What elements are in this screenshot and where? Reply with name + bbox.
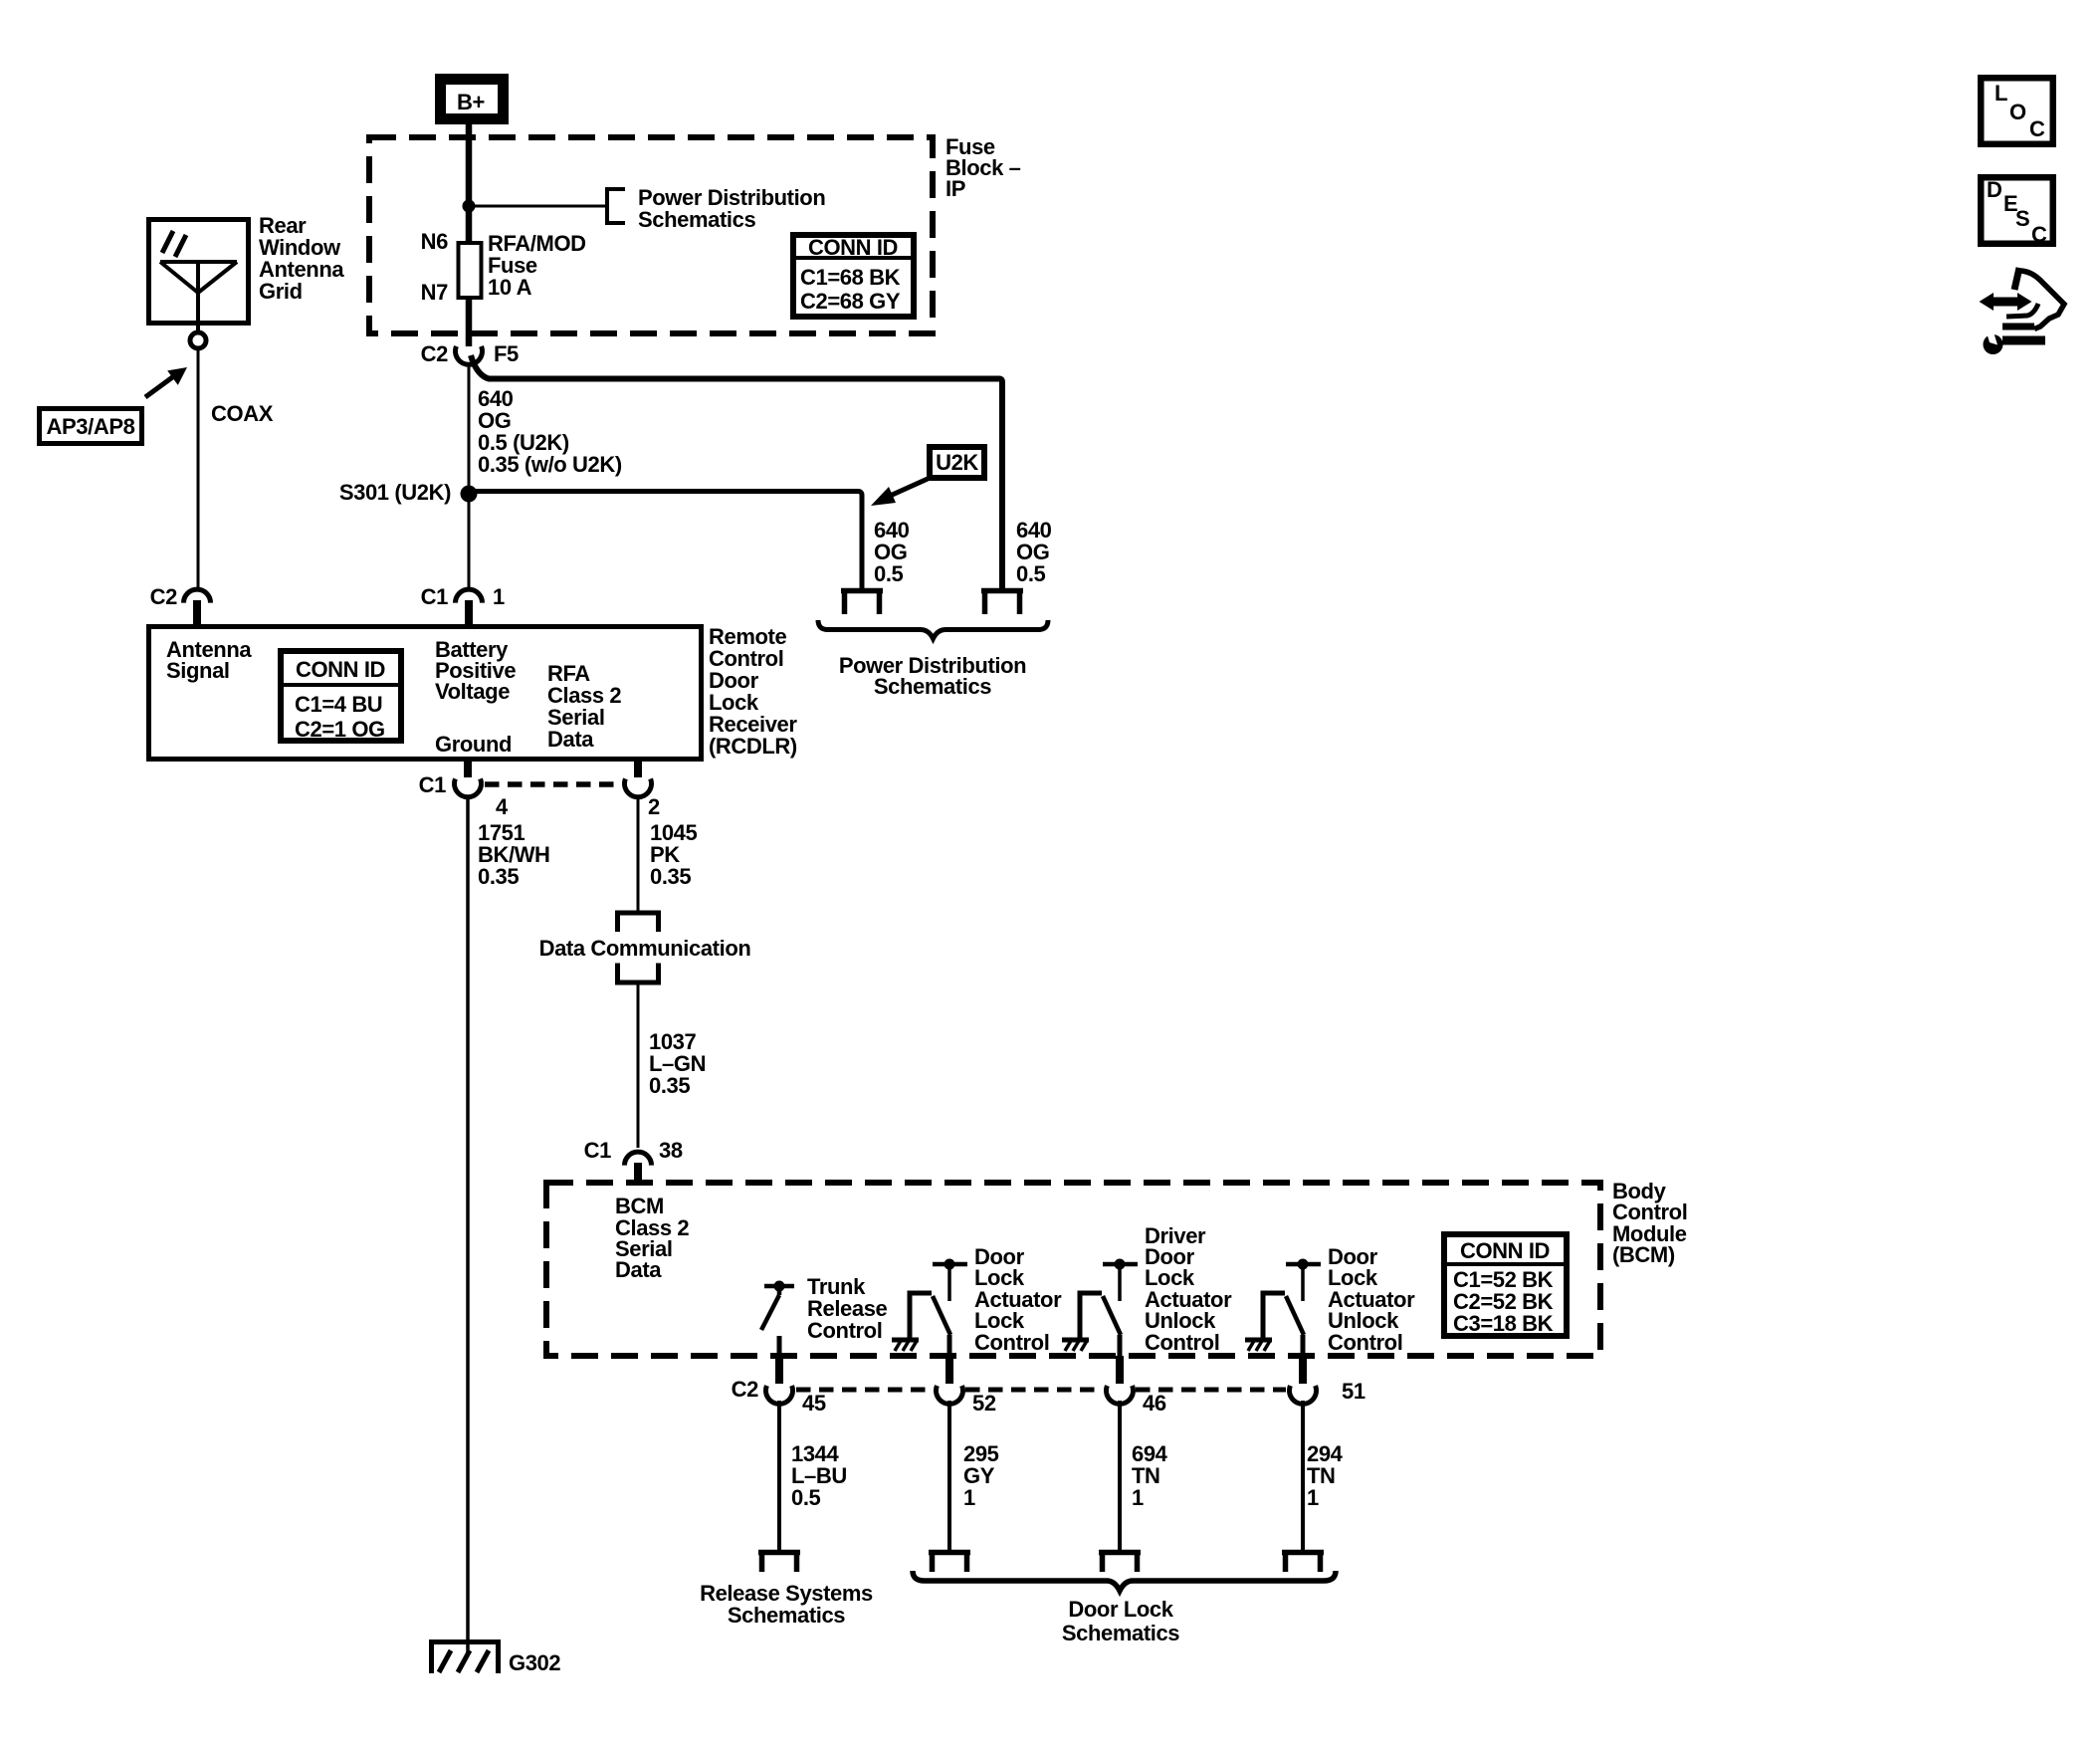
svg-text:46: 46 [1143,1391,1166,1416]
dashed connector line C2 BCM [796,1388,933,1393]
svg-text:COAX: COAX [211,401,274,426]
svg-text:Ground: Ground [435,732,512,757]
svg-text:4: 4 [496,794,509,819]
RCDLR box [149,627,702,760]
wrench [2002,336,2045,345]
U2K arrow [888,479,928,497]
wire fuse to connector C2 F5 [466,298,473,346]
DESC icon box [1981,177,2053,247]
CONN ID table (fuse block) [790,235,917,317]
svg-text:C1: C1 [584,1138,611,1163]
grid marks [162,231,173,253]
connector C2 F5 (fuse block output) [456,346,483,364]
svg-text:C1=68 BKC2=68 GY: C1=68 BKC2=68 GY [800,265,901,314]
svg-text:G302: G302 [509,1650,560,1675]
trunk release control driver [761,1281,794,1357]
svg-text:O: O [2009,100,2026,124]
fuse block IP dashed box [369,137,933,333]
driver door lock actuator unlock control driver [1062,1259,1138,1357]
terminal (door lock 52) [929,1553,970,1573]
junction dot on B+ feed [463,200,476,213]
wire pin46 to door lock terminal [1118,1401,1122,1550]
terminal (right power distribution lead) [981,591,1023,615]
svg-text:1: 1 [493,584,505,609]
svg-text:S301 (U2K): S301 (U2K) [339,480,451,505]
splice S301 (U2K) [461,486,478,503]
rear window antenna grid box [149,220,249,331]
door lock actuator unlock control driver [1245,1259,1321,1357]
antenna output circle [190,332,206,348]
svg-text:C2: C2 [421,341,448,366]
terminal (door lock 51) [1282,1553,1324,1573]
off-page connector data communication (bottom bracket) [618,964,659,983]
svg-text:2: 2 [648,794,660,819]
svg-text:N7: N7 [421,280,448,305]
BCM dashed box [546,1183,1600,1356]
fuse RFA/MOD 10A [459,243,482,298]
CONN ID table (RCDLR) [278,651,404,742]
off-page connector data communication (top bracket) [618,913,659,932]
svg-text:CONN ID: CONN ID [808,235,898,260]
svg-text:N6: N6 [421,229,448,254]
how-to-use icon (arrows and wrench) [1980,268,2065,354]
ground G302 symbol [429,1639,501,1673]
svg-text:38: 38 [659,1138,683,1163]
door lock actuator lock control driver [892,1259,967,1357]
terminal (door lock 46) [1099,1553,1141,1573]
svg-text:C: C [2031,222,2047,247]
svg-text:C1: C1 [421,584,448,609]
svg-text:S: S [2015,206,2029,231]
connector C2 pin 52 [945,1356,953,1384]
connector C2 pin 46 [1116,1356,1124,1384]
wire branch F5 to right power distribution [471,355,1002,590]
svg-text:F5: F5 [494,341,519,366]
terminal (release systems) [758,1553,800,1573]
wire B+ to fuse block [466,124,473,244]
wire RCDLR pin2 to data communication [637,795,640,911]
bent outline arrow [2014,268,2019,290]
wire branch S301 to right terminal [469,492,862,591]
dashed connector line C1 RCDLR [485,781,622,787]
svg-text:D: D [1987,177,2002,202]
wire pin52 to door lock terminal [947,1401,951,1550]
connector C1 pin 2 (RCDLR serial data) [634,762,642,777]
svg-text:C1: C1 [419,772,446,797]
coax wire [197,348,200,587]
svg-text:45: 45 [802,1391,826,1416]
wire data communication to BCM [637,983,640,1148]
brace power distribution schematics [818,620,1048,639]
B+ battery positive voltage symbol [441,80,504,119]
AP3/AP8 arrow [145,375,175,397]
wire junction to power distribution bracket [469,205,606,208]
connector C1 pin 4 (RCDLR ground output) [464,762,472,777]
svg-text:U2K: U2K [936,450,978,475]
U2K callout box [930,447,984,478]
svg-text:C1=52 BKC2=52 BKC3=18 BK: C1=52 BKC2=52 BKC3=18 BK [1453,1267,1554,1336]
svg-text:CONN ID: CONN ID [1460,1238,1550,1263]
double headed arrow [1992,298,2020,307]
svg-text:CONN ID: CONN ID [296,657,385,682]
svg-text:52: 52 [972,1391,996,1416]
svg-text:Data Communication: Data Communication [539,936,751,961]
LOC icon box [1981,78,2053,144]
wire F5 cup to splice S301 [468,362,471,488]
AP3/AP8 callout box [40,409,142,444]
svg-text:C2: C2 [150,584,177,609]
svg-text:L: L [1995,81,2007,106]
wire pin51 to door lock terminal [1301,1401,1305,1550]
connector C1 pin 38 (BCM) [625,1152,652,1166]
svg-text:Door LockSchematics: Door LockSchematics [1062,1597,1179,1645]
svg-text:C2: C2 [732,1377,758,1402]
connector C2 pin 45 (trunk release) [775,1356,783,1384]
brace door lock schematics [913,1571,1336,1591]
CONN ID table (BCM) [1441,1234,1570,1336]
svg-text:C: C [2029,116,2045,141]
svg-text:BatteryPositiveVoltage: BatteryPositiveVoltage [435,637,516,704]
bracket power distribution reference [607,189,625,223]
connector C2 pin 51 [1299,1356,1307,1384]
wire RCDLR ground to G302 [466,795,470,1652]
connector C1 pin 1 (RCDLR) [456,589,483,603]
wire S301 to RCDLR C1 pin 1 [468,502,471,587]
wire pin45 to release systems terminal [777,1401,781,1550]
connector C2 (antenna to RCDLR) [184,589,211,603]
svg-text:51: 51 [1342,1379,1365,1404]
svg-text:B+: B+ [457,90,485,114]
svg-text:C1=4 BUC2=1 OG: C1=4 BUC2=1 OG [295,692,385,742]
terminal (left power distribution lead) [841,591,883,615]
antenna symbol [160,260,237,264]
svg-text:AP3/AP8: AP3/AP8 [47,414,135,439]
